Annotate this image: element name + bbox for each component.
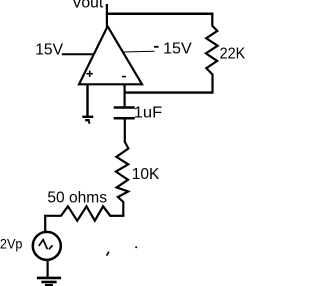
wire source to ground bbox=[46, 260, 48, 278]
op-amp minus input pin label bbox=[122, 76, 126, 78]
source V1 sine bbox=[33, 232, 61, 260]
svg-text:1uF: 1uF bbox=[134, 104, 163, 121]
resistor R3 50 ohms bbox=[61, 206, 110, 220]
wire -15V supply (thin lead) bbox=[123, 50, 155, 53]
wire inverting input to capacitor bbox=[123, 84, 125, 108]
wire +15V supply to op-amp bbox=[62, 53, 94, 55]
op-amp U1 bbox=[79, 26, 142, 84]
capacitor C1 1uF bbox=[114, 108, 135, 119]
ground (op-amp non-inverting input) bbox=[82, 117, 93, 123]
wire capacitor to 10K resistor bbox=[124, 119, 126, 143]
svg-text:50 ohms: 50 ohms bbox=[47, 190, 107, 207]
stray pen tick bbox=[107, 252, 109, 256]
label -15V bbox=[154, 46, 159, 48]
resistor R1 22K bbox=[206, 13, 218, 93]
resistor R2 10K bbox=[116, 142, 128, 217]
ground (source) bbox=[37, 278, 61, 285]
svg-text:Vout: Vout bbox=[72, 0, 104, 11]
source sine squiggle bbox=[39, 240, 53, 250]
svg-text:2Vp: 2Vp bbox=[0, 235, 23, 251]
svg-text:22K: 22K bbox=[220, 45, 246, 62]
svg-text:15V: 15V bbox=[163, 40, 192, 57]
wire output vertical (Vout to op-amp apex) bbox=[106, 4, 108, 27]
svg-text:15V: 15V bbox=[35, 41, 63, 58]
stray dot bbox=[135, 246, 137, 248]
op-amp plus input pin label bbox=[86, 71, 93, 78]
wire source to 50 ohm resistor (corner) bbox=[45, 216, 61, 232]
wire non-inverting input to ground bbox=[86, 84, 88, 117]
wire 22K bottom to inverting-input node bbox=[124, 91, 214, 93]
wire 10K to 50 ohm resistor bbox=[110, 215, 125, 217]
svg-text:10K: 10K bbox=[132, 166, 160, 183]
wire output top horizontal bbox=[106, 12, 214, 15]
